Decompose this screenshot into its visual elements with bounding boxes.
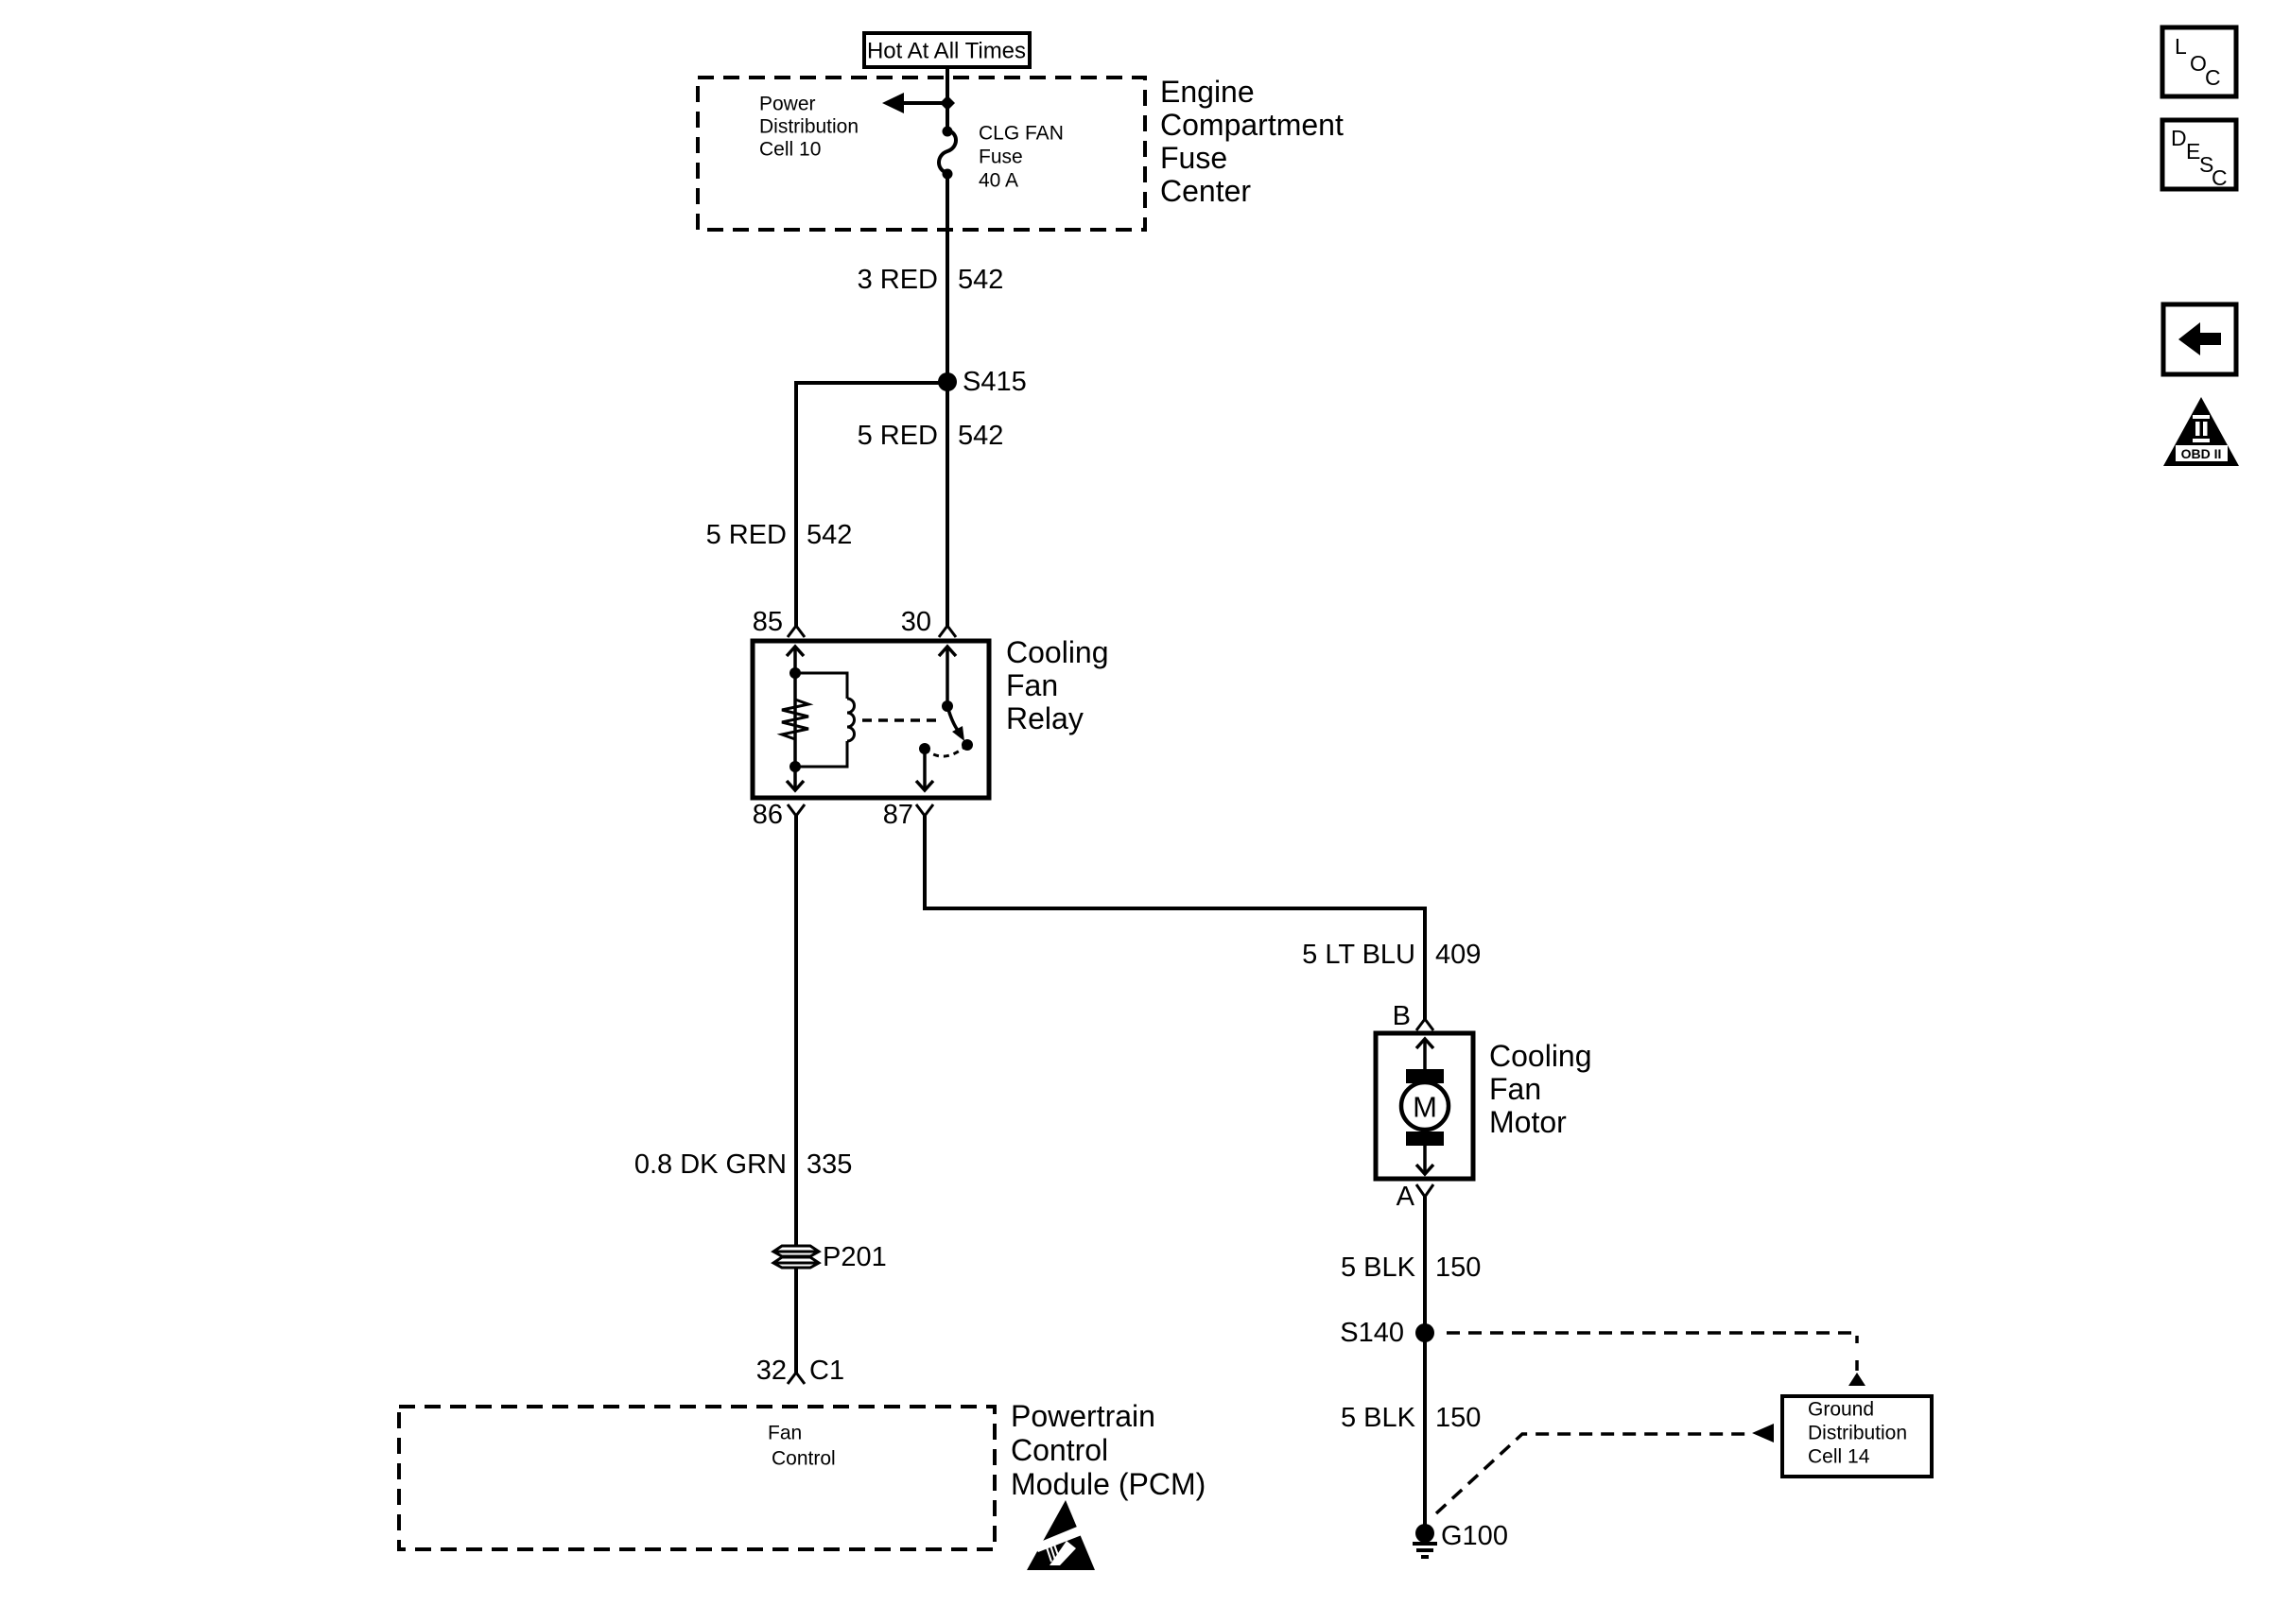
label 3 RED 542 bbox=[858, 265, 1004, 295]
svg-text:Power: Power bbox=[759, 94, 816, 115]
wire pin 87 to motor B bbox=[925, 816, 1425, 1019]
svg-text:Cell 14: Cell 14 bbox=[1808, 1446, 1870, 1468]
label 5 RED 542 left bbox=[706, 520, 853, 550]
label 0.8 DK GRN 335 bbox=[634, 1149, 853, 1180]
svg-text:Ground: Ground bbox=[1808, 1399, 1874, 1421]
svg-text:C: C bbox=[2212, 165, 2228, 190]
wire P201 to PCM pin 32 bbox=[794, 1267, 798, 1373]
svg-text:Control: Control bbox=[772, 1448, 836, 1470]
svg-text:Cooling: Cooling bbox=[1489, 1039, 1592, 1073]
svg-text:30: 30 bbox=[901, 607, 931, 637]
node Ground Distribution Cell 14 box bbox=[1782, 1396, 1932, 1477]
svg-text:5 RED: 5 RED bbox=[858, 421, 938, 451]
relay coil bbox=[795, 673, 855, 767]
svg-text:P201: P201 bbox=[823, 1242, 887, 1272]
motor M symbol bbox=[1401, 1039, 1449, 1174]
svg-text:S140: S140 bbox=[1340, 1318, 1404, 1348]
svg-text:C: C bbox=[2205, 65, 2221, 90]
svg-text:Cooling: Cooling bbox=[1006, 635, 1109, 669]
label 5 BLK 150 upper bbox=[1341, 1253, 1481, 1283]
wire S415 branch to pin 85 bbox=[796, 381, 947, 626]
svg-text:D: D bbox=[2171, 126, 2187, 150]
svg-text:Motor: Motor bbox=[1489, 1105, 1567, 1139]
dashed wire S140 to Ground Distribution bbox=[1447, 1333, 1865, 1386]
wire pin 86 down to P201 bbox=[794, 816, 798, 1247]
svg-text:87: 87 bbox=[883, 800, 913, 830]
svg-text:Fuse: Fuse bbox=[979, 147, 1023, 168]
svg-text:0.8 DK GRN: 0.8 DK GRN bbox=[634, 1149, 787, 1180]
fuse CLG FAN 40 A bbox=[939, 123, 1064, 192]
label 5 BLK 150 lower bbox=[1341, 1403, 1481, 1433]
pin 30 label and connector bbox=[901, 607, 956, 637]
wire fuse to S415 bbox=[946, 174, 949, 382]
svg-text:542: 542 bbox=[958, 265, 1003, 295]
connector P201 grommet bbox=[773, 1242, 887, 1272]
pin 86 label and connector bbox=[753, 800, 805, 830]
relay Cooling Fan Relay box bbox=[753, 635, 1109, 798]
svg-text:Cell 10: Cell 10 bbox=[759, 139, 821, 161]
icon back arrow box bbox=[2163, 304, 2236, 374]
svg-text:Hot At All Times: Hot At All Times bbox=[867, 39, 1026, 64]
wire main feed from Hot At All Times bbox=[946, 67, 949, 131]
svg-text:S415: S415 bbox=[963, 367, 1027, 397]
label Power Distribution Cell 10 bbox=[759, 94, 859, 161]
svg-text:5 RED: 5 RED bbox=[706, 520, 787, 550]
svg-text:3 RED: 3 RED bbox=[858, 265, 938, 295]
ground G100 bbox=[1413, 1521, 1508, 1557]
relay switch bbox=[916, 647, 973, 790]
svg-text:M: M bbox=[1413, 1091, 1437, 1124]
PCM dashed box bbox=[399, 1399, 1206, 1549]
svg-text:Compartment: Compartment bbox=[1160, 108, 1344, 142]
svg-text:5 BLK: 5 BLK bbox=[1341, 1403, 1416, 1433]
ESD symbol bbox=[1027, 1500, 1095, 1570]
svg-text:C1: C1 bbox=[809, 1356, 844, 1386]
svg-text:335: 335 bbox=[807, 1149, 852, 1180]
relay coil branch wire bbox=[787, 647, 804, 790]
label 5 RED 542 right bbox=[858, 421, 1004, 451]
svg-text:Distribution: Distribution bbox=[1808, 1423, 1907, 1444]
svg-text:CLG FAN: CLG FAN bbox=[979, 123, 1064, 145]
svg-text:86: 86 bbox=[753, 800, 783, 830]
relay actuation dashed link bbox=[862, 718, 941, 722]
label 5 LT BLU 409 bbox=[1302, 940, 1481, 970]
motor Cooling Fan Motor box bbox=[1376, 1033, 1592, 1179]
wire arrow to Power Distribution bbox=[882, 93, 955, 113]
svg-text:150: 150 bbox=[1435, 1253, 1481, 1283]
svg-text:85: 85 bbox=[753, 607, 783, 637]
svg-text:Fan: Fan bbox=[768, 1423, 802, 1444]
svg-text:40 A: 40 A bbox=[979, 170, 1018, 192]
node S140 splice bbox=[1340, 1318, 1434, 1348]
svg-text:Center: Center bbox=[1160, 174, 1251, 208]
pin 87 label and connector bbox=[883, 800, 933, 830]
wire motor A to G100 bbox=[1423, 1197, 1427, 1526]
svg-text:L: L bbox=[2175, 34, 2187, 59]
Engine Compartment Fuse Center dashed box bbox=[698, 75, 1344, 230]
svg-text:409: 409 bbox=[1435, 940, 1481, 970]
svg-text:542: 542 bbox=[958, 421, 1003, 451]
icon LOC box bbox=[2162, 27, 2236, 96]
svg-text:G100: G100 bbox=[1441, 1521, 1508, 1551]
svg-text:542: 542 bbox=[807, 520, 852, 550]
pin 85 label and connector bbox=[753, 607, 805, 637]
svg-text:A: A bbox=[1397, 1182, 1415, 1212]
svg-text:Distribution: Distribution bbox=[759, 116, 859, 138]
pin A label and connector bbox=[1397, 1182, 1433, 1212]
dashed wire G100 to Ground Distribution bbox=[1436, 1424, 1774, 1513]
pin 32 C1 label and connector bbox=[756, 1356, 844, 1386]
svg-text:Control: Control bbox=[1011, 1433, 1108, 1467]
svg-text:150: 150 bbox=[1435, 1403, 1481, 1433]
svg-text:B: B bbox=[1393, 1001, 1411, 1031]
svg-text:Fuse: Fuse bbox=[1160, 141, 1227, 175]
wire S415 down to pin 30 bbox=[946, 382, 949, 626]
svg-text:32: 32 bbox=[756, 1356, 787, 1386]
svg-text:Module (PCM): Module (PCM) bbox=[1011, 1467, 1206, 1501]
icon DESC box bbox=[2162, 120, 2236, 190]
svg-text:Engine: Engine bbox=[1160, 75, 1255, 109]
svg-text:Fan: Fan bbox=[1006, 668, 1058, 702]
relay resistor bbox=[782, 700, 808, 739]
node S415 splice bbox=[938, 367, 1027, 397]
svg-text:5 BLK: 5 BLK bbox=[1341, 1253, 1416, 1283]
node Hot At All Times box bbox=[864, 33, 1030, 67]
svg-text:Powertrain: Powertrain bbox=[1011, 1399, 1155, 1433]
svg-text:Relay: Relay bbox=[1006, 701, 1084, 735]
pin B label and connector bbox=[1393, 1001, 1433, 1031]
icon OBD II triangle bbox=[2163, 397, 2239, 466]
svg-text:OBD II: OBD II bbox=[2181, 446, 2222, 461]
svg-text:5 LT BLU: 5 LT BLU bbox=[1302, 940, 1415, 970]
svg-text:Fan: Fan bbox=[1489, 1072, 1541, 1106]
